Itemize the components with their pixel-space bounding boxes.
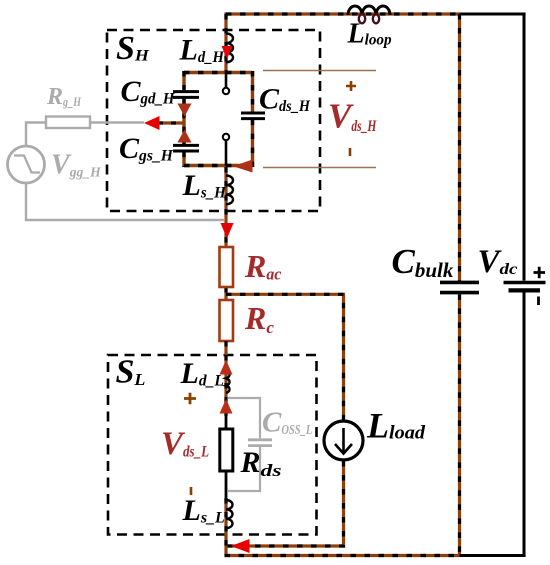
node source terminal (223, 134, 229, 140)
label Vds_L plus sign (184, 393, 196, 404)
wire gate stub with loop overlay (158, 121, 184, 124)
inductor Ld_H (226, 34, 233, 63)
wire Rac section with loop overlay (224, 247, 227, 300)
capacitor Coss_L gray branch (228, 398, 272, 491)
label Vdc minus (537, 297, 540, 306)
arrow dark up at SL top (220, 360, 233, 375)
wire black mosfet SL (225, 414, 228, 498)
wire Cbulk to bottom with power-loop overlay (458, 294, 461, 555)
arrow red down below Ls_H (221, 223, 234, 239)
wire SL drain section with loop overlay (224, 341, 227, 416)
wire source stub (225, 140, 228, 166)
arrow dark down above gate node (178, 104, 192, 117)
label Vds_L minus sign (190, 487, 193, 495)
MOSFET inner box SH model with loop overlay (184, 71, 253, 167)
capacitor Cgd_H (173, 92, 199, 98)
wire top bus black segment to Vdc (460, 13, 526, 16)
label Vdc plus (534, 267, 546, 278)
wire Vdc to bottom (523, 292, 526, 555)
capacitor Cbulk (440, 282, 479, 292)
wire load loop branch with overlay (226, 294, 344, 546)
wire SL source section with loop overlay (224, 498, 227, 555)
wire source branch down with loop overlay (224, 167, 227, 247)
capacitor Cgs_H (173, 145, 199, 151)
wire Cbulk branch with power-loop overlay (458, 14, 461, 281)
arrow dark up above Rds (220, 399, 233, 414)
label Vds_H plus sign (346, 81, 356, 91)
current source Lload (324, 421, 363, 460)
label Vds_H minus sign (349, 148, 352, 156)
probe line Vds_H minus (263, 167, 376, 169)
wire bottom bus black segment (460, 554, 526, 557)
wire drain branch into SH with loop overlay (224, 14, 227, 71)
wire drain stub (225, 71, 228, 88)
resistor Rds (220, 429, 233, 471)
resistor Rc (220, 300, 234, 341)
resistor Rg_H (46, 117, 90, 129)
source Vgg_H (8, 146, 45, 183)
wire top bus with power-loop overlay (224, 12, 459, 15)
wire gray gate loop (26, 123, 224, 221)
arrow red left on load return (231, 539, 250, 553)
resistor Rac (220, 247, 234, 287)
inductor Ld_L (226, 371, 230, 393)
wire Vdc branch (523, 14, 526, 281)
arrow red left on gate (144, 116, 160, 130)
wire bottom bus with power-loop overlay (225, 554, 460, 557)
arrow red down on Ld_H (222, 46, 233, 59)
inductor Lloop (348, 6, 390, 23)
inductor Ls_H (226, 176, 233, 205)
dashed box SL (108, 355, 317, 535)
dashed box SH (107, 30, 320, 211)
node drain terminal (223, 88, 229, 94)
inductor Ls_L (226, 500, 233, 528)
arrow dark left on inner box bottom (233, 160, 253, 173)
battery Vdc (504, 283, 546, 291)
arrow dark up below gate node (178, 130, 192, 143)
probe line Vds_H plus (263, 70, 376, 72)
capacitor Cds_H (241, 113, 265, 119)
